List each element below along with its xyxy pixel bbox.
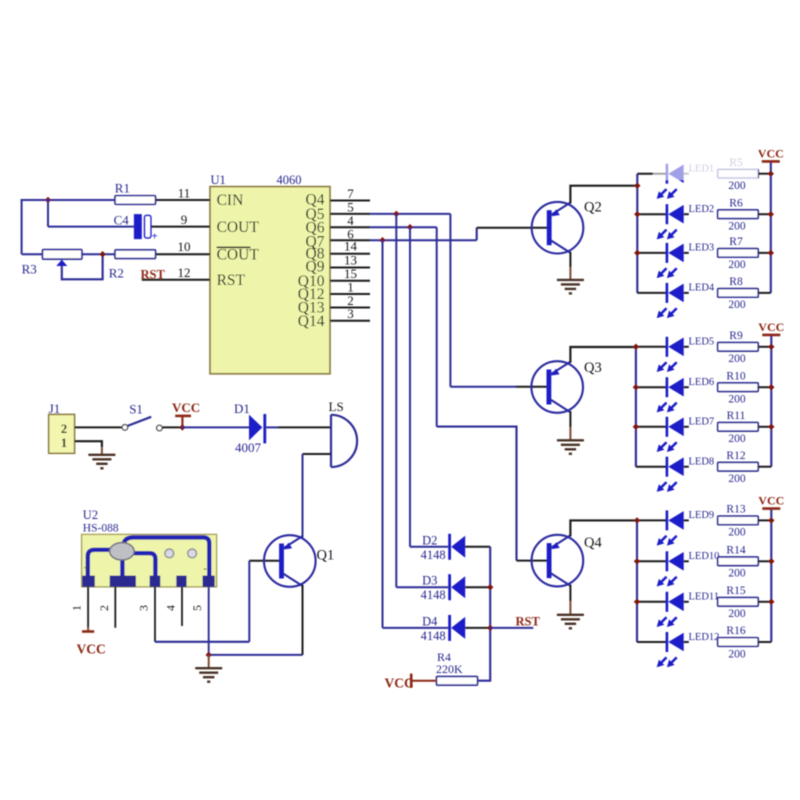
wire left bus to LED12 [637, 641, 667, 643]
wire J1 pin2 to S1 [75, 426, 123, 428]
svg-text:S1: S1 [129, 402, 143, 417]
svg-text:LED12: LED12 [689, 632, 720, 643]
svg-text:4060: 4060 [277, 173, 302, 187]
switch S1 [122, 417, 162, 431]
LED LED2 [657, 204, 684, 239]
wire R3 wiper feedback [62, 254, 103, 279]
wire LED10 to R14 [684, 560, 689, 562]
wire Q3 collector to ground [569, 411, 571, 427]
wire U1 Q12 stub [330, 293, 370, 295]
junction dot Q7 net [379, 237, 385, 243]
wire Q6 net jog to Q4 base [437, 427, 517, 561]
wire LED group right bus [770, 335, 772, 467]
svg-text:RST: RST [516, 614, 541, 628]
VCC supply symbol [758, 320, 784, 335]
connector J1 [49, 414, 75, 453]
junction dot left bus row 2 [634, 558, 640, 564]
svg-text:200: 200 [728, 608, 746, 620]
LED LED6 [657, 377, 684, 412]
junction dot right bus row 2 [768, 211, 774, 217]
wire LED11 to R15 [684, 601, 689, 603]
U2 microphone [110, 543, 135, 560]
U2 pin 5 wire to ground [208, 587, 210, 655]
junction dot transistor feed [634, 183, 640, 189]
U2 trace mic to pad2 [120, 559, 124, 578]
svg-text:Q4: Q4 [584, 535, 602, 551]
svg-text:1: 1 [61, 436, 67, 450]
svg-text:R7: R7 [729, 236, 743, 248]
resistor R6 [718, 210, 759, 219]
U2 trace mic to pad3 [133, 553, 155, 577]
svg-text:Q14: Q14 [298, 313, 325, 330]
wire left bus to LED4 [637, 292, 667, 294]
wire D3 to bus [465, 586, 490, 588]
wire RST net to U1 pin 12 [142, 279, 210, 281]
wire Q6 net down leg [436, 227, 438, 426]
junction dot R1-C4 node [45, 197, 51, 203]
wire Q6 net down to D2 [409, 227, 411, 547]
wire left bus to LED1 [637, 173, 667, 175]
svg-text:+: + [84, 564, 90, 575]
svg-text:COUT: COUT [217, 247, 260, 264]
svg-text:VCC: VCC [758, 146, 784, 160]
resistor R13 [718, 516, 759, 525]
svg-text:LS: LS [329, 399, 344, 414]
wire LED group right bus [770, 161, 772, 293]
wire ground bus under U2 [209, 654, 303, 656]
speaker LS [331, 415, 357, 467]
U2 pin 3 wire to Q1 base [154, 587, 156, 642]
LED LED1 [657, 164, 684, 199]
svg-text:R8: R8 [729, 276, 743, 288]
transistor Q4 [532, 535, 603, 587]
wire Q7 net down to D4 [382, 240, 384, 628]
wire C4 to U1 pin 9 [151, 226, 210, 228]
wire Q7 net jog up to Q2 base [476, 228, 478, 241]
svg-text:200: 200 [728, 568, 746, 580]
svg-text:2: 2 [97, 605, 111, 611]
resistor R11 [718, 423, 759, 432]
wire LED group left bus [636, 520, 638, 642]
svg-text:VCC: VCC [758, 320, 784, 334]
resistor R16 [718, 638, 759, 647]
junction dot left bus row 2 [633, 384, 639, 390]
junction dot VCC/S1 [179, 424, 185, 430]
junction dot left bus row 3 [634, 599, 640, 605]
wire Q4 emitter up [570, 520, 637, 536]
junction dot left bus row 3 [634, 250, 640, 256]
wire left vertical [21, 199, 23, 254]
wire LS to Q1 emitter [302, 454, 304, 538]
U2 pad 4 [176, 576, 186, 587]
LED LED4 [657, 283, 684, 318]
wire R9 to right bus [758, 346, 771, 348]
wire LED2 to R6 [684, 213, 689, 215]
wire R1 to U1 pin 11 [156, 199, 211, 201]
svg-text:200: 200 [728, 221, 746, 233]
wire left bus to LED2 [637, 213, 667, 215]
wire Q6 net to D2 [410, 546, 448, 548]
junction dot left bus row 1 [633, 344, 639, 350]
wire U1 Q14 stub [330, 320, 370, 322]
svg-text:R11: R11 [727, 410, 746, 422]
wire top net to R1 [21, 199, 115, 201]
svg-text:4148: 4148 [421, 548, 446, 562]
wire to Q2 base [477, 227, 549, 229]
wire to C4 left plate [48, 226, 134, 228]
svg-text:R2: R2 [109, 266, 124, 281]
svg-text:2: 2 [61, 422, 67, 436]
U2 pin 2 wire [114, 587, 116, 628]
wire left bus to LED10 [637, 560, 667, 562]
potentiometer R3 [43, 250, 82, 266]
wire diode common bus down to R4 [478, 547, 491, 681]
wire LED group left bus [636, 174, 638, 293]
VCC supply at R4 [385, 674, 414, 691]
U2 pin 4 wire [181, 587, 183, 626]
svg-text:C4: C4 [114, 212, 130, 227]
wire to Q4 base [517, 560, 550, 562]
svg-text:U1: U1 [211, 173, 226, 187]
wire LED group left bus [635, 347, 637, 467]
wire left bus to LED5 [636, 346, 667, 348]
wire R13 to right bus [758, 519, 771, 521]
resistor R2 [115, 250, 156, 259]
resistor R4 [437, 677, 478, 686]
wire LED4 to R8 [684, 292, 689, 294]
VCC supply at S1 [172, 400, 200, 427]
LED LED11 [657, 592, 684, 627]
wire left bus to LED3 [637, 252, 667, 254]
wire Q2 emitter up [570, 186, 637, 204]
svg-text:RST: RST [141, 267, 166, 281]
svg-text:200: 200 [728, 180, 746, 192]
wire U1 Q6 stub [330, 226, 370, 228]
transistor Q2 [532, 200, 602, 254]
resistor R5 [718, 169, 759, 178]
module U2 HS-088 board [82, 534, 217, 587]
wire U1 Q8 stub [330, 253, 370, 255]
svg-text:CIN: CIN [217, 192, 244, 209]
wire R6 to right bus [758, 213, 771, 215]
wire Q2 collector to ground [569, 252, 571, 267]
svg-text:COUT: COUT [217, 219, 260, 236]
wire R3 to R2 [82, 253, 115, 255]
diode D3 [421, 574, 466, 603]
U2 pad 2 [110, 576, 136, 587]
junction dot Q5 net [393, 211, 399, 217]
svg-text:VCC: VCC [172, 400, 200, 415]
junction dot U2 ground [206, 652, 212, 658]
wire left bus to LED7 [636, 426, 667, 428]
svg-text:R12: R12 [726, 450, 745, 462]
svg-text:5: 5 [190, 605, 204, 611]
svg-text:200: 200 [728, 527, 746, 539]
junction dot R3 wiper / R2 [99, 251, 105, 257]
ground at Q2 [557, 280, 584, 294]
junction dot Q6 net [407, 224, 413, 230]
svg-text:+: + [152, 231, 158, 243]
svg-text:Q3: Q3 [584, 360, 602, 376]
VCC supply symbol [758, 494, 784, 509]
wire Q5 net down to Q3 base [449, 214, 451, 387]
IC U1 4060 body [210, 187, 330, 374]
U2 trace mic to pad5 [124, 537, 210, 577]
wire Q7 net to D4 [383, 627, 449, 629]
wire Q5 net to D3 [396, 586, 448, 588]
wire VCC node to D1 [182, 426, 249, 428]
svg-text:LED11: LED11 [689, 592, 720, 603]
wire S1 to VCC node [162, 426, 182, 428]
wire LED6 to R10 [684, 386, 689, 388]
resistor R1 [115, 196, 156, 205]
wire LED12 to R16 [684, 641, 689, 643]
svg-text:VCC: VCC [77, 642, 106, 657]
wire R16 to right bus [758, 641, 771, 643]
svg-text:R3: R3 [22, 261, 37, 276]
U2 pad 3 [150, 576, 161, 587]
svg-text:11: 11 [178, 185, 191, 200]
faded overlay artifact on LED1 row [653, 147, 758, 180]
LED LED9 [657, 510, 684, 545]
wire left bus to LED6 [636, 386, 667, 388]
wire Q7 net horizontal [370, 239, 477, 241]
resistor R8 [718, 289, 759, 298]
transistor Q3 [531, 360, 601, 413]
svg-text:200: 200 [728, 473, 746, 485]
U2 pin 1 wire to VCC [87, 587, 89, 627]
LED LED5 [657, 337, 684, 372]
wire LED7 to R11 [684, 426, 689, 428]
wire U1 Q4 stub [330, 200, 370, 202]
wire R15 to right bus [758, 601, 771, 603]
wire to Q3 base [450, 386, 516, 388]
junction dot right bus row 1 [768, 517, 774, 523]
wire left bus to LED8 [636, 466, 667, 468]
svg-text:200: 200 [728, 353, 746, 365]
U2 pad 1 [82, 576, 95, 587]
wire J1 pin1 to ground [75, 441, 102, 447]
svg-text:R9: R9 [729, 330, 743, 342]
junction dot right bus row 3 [768, 424, 774, 430]
wire left bus to LED11 [637, 601, 667, 603]
svg-text:VCC: VCC [385, 676, 414, 691]
wire LED group right bus [770, 509, 772, 642]
wire RST net from D4 bus [490, 627, 533, 629]
U2 trace pad1 to mic [88, 550, 110, 577]
U2 pad 5 [203, 576, 215, 587]
svg-text:D3: D3 [422, 574, 437, 588]
wire Q3 emitter up [570, 347, 636, 363]
resistor R15 [718, 598, 759, 607]
svg-text:4: 4 [164, 605, 178, 611]
svg-text:R13: R13 [726, 504, 745, 516]
VCC supply at U2 pin1 [77, 632, 106, 657]
svg-text:R1: R1 [115, 180, 130, 195]
junction dot left bus row 1 [634, 517, 640, 523]
svg-text:D1: D1 [234, 401, 250, 416]
svg-text:U2: U2 [83, 508, 98, 522]
svg-text:LED10: LED10 [689, 551, 720, 562]
svg-text:220K: 220K [436, 662, 463, 676]
junction dot left bus row 2 [634, 211, 640, 217]
svg-text:LED2: LED2 [689, 204, 715, 215]
U2 mounting hole right [188, 549, 197, 558]
LED LED8 [657, 457, 684, 492]
wire R10 to right bus [758, 386, 771, 388]
wire junction down to C4 row [47, 199, 49, 227]
svg-text:200: 200 [728, 394, 746, 406]
svg-text:LED8: LED8 [689, 457, 715, 468]
wire R5 to right bus [758, 173, 771, 175]
svg-text:J1: J1 [49, 401, 61, 416]
junction dot right bus row 3 [768, 599, 774, 605]
resistor R10 [718, 383, 759, 392]
diode D2 [421, 533, 466, 562]
svg-text:4148: 4148 [421, 629, 446, 643]
wire D4 to bus [465, 627, 490, 629]
LED LED7 [657, 417, 684, 452]
wire Q4 collector to ground [569, 585, 571, 602]
junction dot right bus row 1 [768, 344, 774, 350]
wire R12 to right bus [758, 466, 771, 468]
wire U1 Q5 stub [330, 213, 370, 215]
svg-text:R16: R16 [726, 625, 745, 637]
svg-text:200: 200 [728, 648, 746, 660]
svg-text:LED3: LED3 [689, 243, 715, 254]
svg-text:4007: 4007 [235, 440, 262, 455]
wire Q1 collector down [302, 585, 304, 655]
wire R7 to right bus [758, 252, 771, 254]
transistor Q1 [264, 535, 334, 587]
svg-text:LED6: LED6 [689, 377, 715, 388]
wire R8 to right bus [758, 292, 771, 294]
svg-text:D4: D4 [422, 614, 438, 628]
wire LED5 to R9 [684, 346, 689, 348]
wire U1 Q7 stub [330, 239, 370, 241]
svg-text:R15: R15 [726, 585, 745, 597]
svg-text:200: 200 [728, 299, 746, 311]
wire U1 Q9 stub [330, 267, 370, 269]
diode D1 [249, 414, 265, 443]
svg-text:R6: R6 [729, 197, 743, 209]
wire U1 Q10 stub [330, 280, 370, 282]
junction dot D3 bus [487, 584, 493, 590]
svg-text:10: 10 [178, 239, 191, 254]
svg-text:HS-088: HS-088 [83, 523, 119, 535]
svg-text:12: 12 [178, 265, 191, 280]
svg-text:3: 3 [137, 605, 151, 611]
svg-text:RST: RST [217, 272, 246, 289]
ground at Q3 [557, 440, 584, 454]
wire to R3 left terminal [22, 253, 43, 255]
ground at U2 [195, 668, 222, 682]
resistor R12 [718, 462, 759, 471]
wire LED3 to R7 [684, 252, 689, 254]
VCC supply symbol [758, 146, 784, 161]
wire LED9 to R13 [684, 519, 689, 521]
svg-text:LED9: LED9 [689, 510, 715, 521]
wire LED8 to R12 [684, 466, 689, 468]
svg-text:200: 200 [728, 259, 746, 271]
diode D4 [421, 614, 466, 643]
svg-text:9: 9 [181, 212, 188, 227]
svg-text:1: 1 [70, 605, 84, 611]
capacitor C4 [134, 214, 158, 242]
wire left bus to LED9 [637, 519, 667, 521]
wire VCC to R4 [412, 680, 436, 682]
svg-text:Q2: Q2 [584, 200, 602, 216]
junction dot D4 RST bus [487, 625, 493, 631]
svg-text:R14: R14 [726, 545, 745, 557]
wire R2 to U1 pin 10 [156, 253, 211, 255]
wire U1 Q13 stub [330, 307, 370, 309]
junction dot left bus row 3 [633, 424, 639, 430]
junction dot right bus row 1 [768, 171, 774, 177]
wire LS bottom terminal [303, 453, 332, 455]
LED LED12 [657, 632, 684, 667]
wire Q5 net horizontal [370, 213, 450, 215]
ground at Q4 [557, 615, 584, 629]
ground at J1 [88, 455, 115, 469]
wire D1 to LS [266, 426, 278, 428]
wire LED1 to R5 [684, 173, 689, 175]
resistor R7 [718, 249, 759, 258]
svg-text:LED4: LED4 [689, 283, 715, 294]
LED LED3 [657, 243, 684, 278]
wire Q5 net down to D3 [395, 214, 397, 587]
wire Q6 net horizontal [370, 226, 437, 228]
resistor R14 [718, 557, 759, 566]
wire D2 to bus [465, 546, 490, 548]
wire U2 pin3 riser to Q1 base [248, 561, 250, 642]
junction dot right bus row 3 [768, 250, 774, 256]
svg-text:LED7: LED7 [689, 417, 715, 428]
LED LED10 [657, 551, 684, 586]
svg-text:R10: R10 [726, 370, 745, 382]
svg-text:VCC: VCC [758, 494, 784, 508]
resistor R9 [718, 343, 759, 352]
svg-text:4148: 4148 [421, 588, 446, 602]
U2 mounting hole left [165, 549, 174, 558]
svg-text:LED5: LED5 [689, 337, 715, 348]
wire R14 to right bus [758, 560, 771, 562]
junction dot right bus row 2 [768, 384, 774, 390]
svg-text:200: 200 [728, 433, 746, 445]
junction dot right bus row 2 [768, 558, 774, 564]
wire R11 to right bus [758, 426, 771, 428]
svg-text:Q1: Q1 [317, 548, 335, 564]
svg-text:D2: D2 [422, 533, 437, 547]
svg-text:-: - [203, 563, 207, 575]
